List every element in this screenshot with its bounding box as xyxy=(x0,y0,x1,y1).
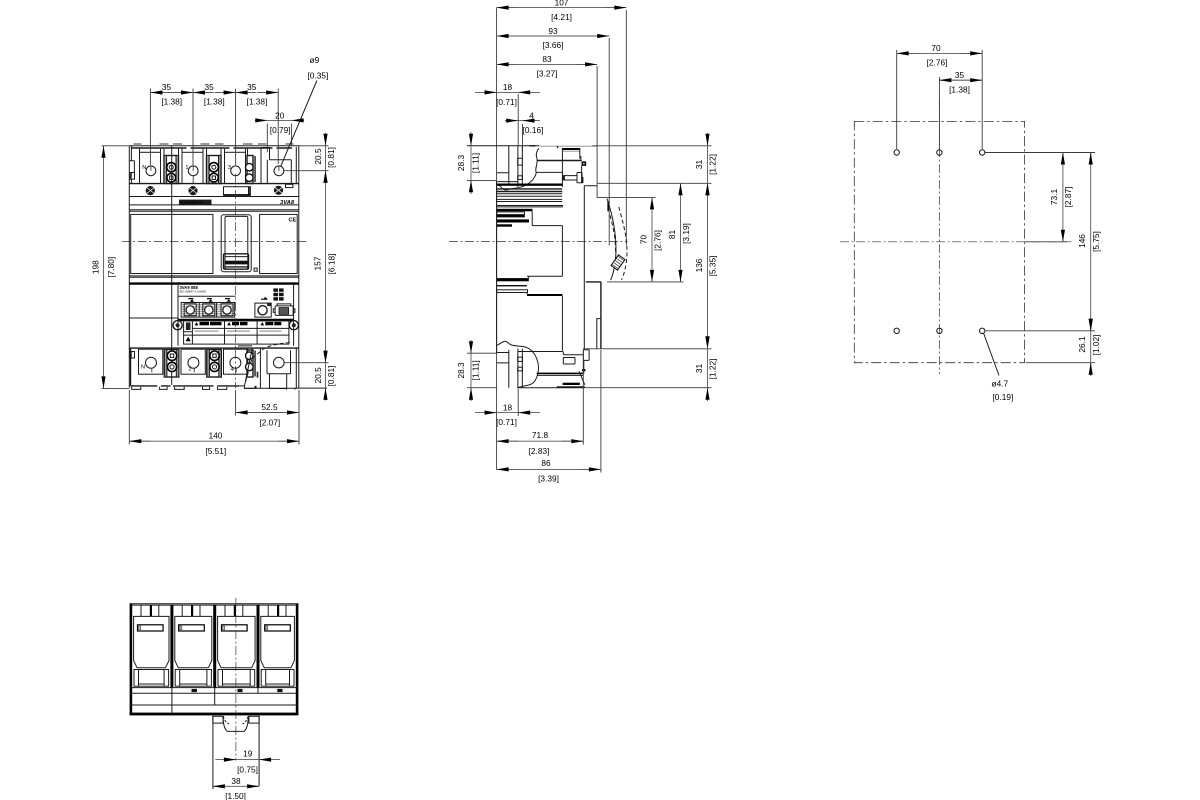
terminal shroud heavy top line xyxy=(132,147,293,149)
svg-text:1: 1 xyxy=(185,165,188,171)
dim 35 pole pitch 1 xyxy=(150,82,193,165)
bottom left edge notch xyxy=(130,352,135,359)
cover screws row xyxy=(146,186,283,196)
handle escutcheon xyxy=(221,215,251,272)
handle grip xyxy=(224,254,249,269)
svg-text:157: 157 xyxy=(313,256,323,270)
module divider 1 xyxy=(170,605,173,688)
svg-text:71.8: 71.8 xyxy=(532,430,549,440)
heavy cap xyxy=(562,148,579,150)
shroud bottom line xyxy=(129,183,298,185)
bottom terminal box 2 xyxy=(181,349,205,374)
svg-text:136: 136 xyxy=(694,258,704,272)
svg-text:18: 18 xyxy=(503,82,513,92)
bottom cage clamp 1 xyxy=(164,350,179,378)
escutcheon rear plane xyxy=(584,186,597,349)
svg-text:ø4.7: ø4.7 xyxy=(992,379,1009,389)
strip left icons xyxy=(186,322,191,341)
body left edge xyxy=(129,146,134,388)
dim 140 bottom xyxy=(129,390,299,456)
dim 18 top xyxy=(475,82,540,146)
svg-text:[1.02]: [1.02] xyxy=(1091,335,1101,356)
svg-text:70: 70 xyxy=(931,43,941,53)
heavy step line mid-bottom xyxy=(527,294,562,296)
left edge thick xyxy=(130,604,133,715)
trip test button xyxy=(254,268,257,271)
pole divider line xyxy=(171,146,173,385)
horizontal centerline xyxy=(840,241,1072,243)
interphase barrier curve xyxy=(245,343,289,383)
terminal box 3 xyxy=(225,152,246,183)
svg-text:83: 83 xyxy=(542,54,552,64)
mid step outline xyxy=(527,211,562,278)
svg-text:[0.16]: [0.16] xyxy=(523,125,544,135)
latch square xyxy=(582,161,587,165)
dim dia 9 leader xyxy=(281,55,328,166)
svg-text:3: 3 xyxy=(228,165,231,171)
svg-text:[4.21]: [4.21] xyxy=(551,12,572,22)
small stack parts right xyxy=(562,173,582,183)
dim 35 pole pitch 2 xyxy=(193,82,236,165)
svg-text:35: 35 xyxy=(162,82,172,92)
break squiggle top xyxy=(497,148,539,190)
svg-text:70: 70 xyxy=(639,235,649,245)
slanted pole4 separation xyxy=(245,348,253,386)
svg-text:146: 146 xyxy=(1077,234,1087,248)
terminal box N xyxy=(140,152,161,183)
vertical centerline xyxy=(938,100,940,374)
svg-text:81: 81 xyxy=(667,230,677,240)
dim 157 right xyxy=(313,171,337,363)
left reference vertical (front face plane) xyxy=(496,8,498,470)
svg-text:4: 4 xyxy=(231,367,234,373)
latch marks xyxy=(192,689,283,692)
svg-text:[2.76]: [2.76] xyxy=(927,58,948,68)
svg-text:[1.11]: [1.11] xyxy=(470,153,480,173)
accessory window xyxy=(224,187,251,196)
svg-text:28.3: 28.3 xyxy=(456,155,466,172)
strip warning texts xyxy=(195,322,282,326)
DIP switch block xyxy=(273,288,283,300)
left edge notch xyxy=(130,173,135,180)
svg-text:[5.35]: [5.35] xyxy=(707,256,717,277)
hole top left xyxy=(894,150,899,155)
svg-text:26.1: 26.1 xyxy=(1077,336,1087,353)
module 2 internals xyxy=(175,605,212,686)
body top edge xyxy=(129,145,299,147)
terminal box 1 xyxy=(182,152,203,183)
hole bottom middle xyxy=(937,328,942,333)
latch detail boxes top xyxy=(518,158,523,165)
dim 146 xyxy=(985,153,1101,331)
dim 20.5 bottom right xyxy=(284,351,336,400)
svg-text:[1.11]: [1.11] xyxy=(470,360,480,380)
bottom partial cage xyxy=(246,350,259,378)
svg-text:20.5: 20.5 xyxy=(313,367,323,384)
bottom view xyxy=(130,598,299,800)
svg-text:107: 107 xyxy=(555,0,569,7)
bottom module heavy bottoms with feet xyxy=(131,348,328,389)
module divider 3 xyxy=(257,605,260,688)
right edge thick xyxy=(296,604,299,715)
label strip grid xyxy=(184,321,289,344)
svg-text:4: 4 xyxy=(529,110,534,120)
band lines top cluster xyxy=(497,194,563,207)
dim 81 handle xyxy=(667,183,691,282)
svg-text:[1.38]: [1.38] xyxy=(204,97,225,107)
module 1 internals xyxy=(134,605,169,686)
svg-text:[0.71]: [0.71] xyxy=(496,417,517,427)
svg-text:[3.39]: [3.39] xyxy=(538,474,559,484)
horizontal center line xyxy=(122,241,309,243)
strip row2 faint text xyxy=(195,330,282,332)
face right window xyxy=(260,214,298,273)
svg-text:18: 18 xyxy=(503,402,513,412)
svg-text:IEC 60947-2 Ue690: IEC 60947-2 Ue690 xyxy=(180,289,207,293)
dim 83 xyxy=(497,54,597,198)
svg-text:CE: CE xyxy=(289,218,297,224)
svg-text:[0.71]: [0.71] xyxy=(496,97,517,107)
svg-text:[3.66]: [3.66] xyxy=(543,40,564,50)
terminal shroud ticks xyxy=(140,149,248,156)
dim 20 terminal width xyxy=(255,110,304,152)
dim 28.3 top left xyxy=(456,132,497,194)
break squiggle bottom xyxy=(497,341,539,388)
svg-text:[7.80]: [7.80] xyxy=(106,257,116,278)
heavy band under top terminal xyxy=(497,184,562,186)
svg-text:35: 35 xyxy=(204,82,214,92)
bottom terminal box 4 xyxy=(224,349,248,374)
svg-text:[3.19]: [3.19] xyxy=(681,223,691,244)
side centerline xyxy=(449,240,628,242)
bottom terminal block xyxy=(497,349,563,388)
vertical center line xyxy=(235,174,237,389)
handle grip cross-section xyxy=(611,255,625,270)
top mounting tabs xyxy=(134,143,294,146)
cage clamp between N and 1 xyxy=(164,156,179,184)
pole 4 terminal compartment xyxy=(261,148,291,184)
lower band lines xyxy=(130,688,299,705)
dim 93 xyxy=(497,26,610,246)
svg-text:[1.50]: [1.50] xyxy=(225,791,246,800)
dim 31 top right xyxy=(592,133,717,196)
svg-text:35: 35 xyxy=(247,82,257,92)
terminal block top left xyxy=(497,146,523,187)
bottom small stack parts xyxy=(563,350,589,364)
dim 198 left xyxy=(91,146,130,389)
svg-text:31: 31 xyxy=(694,364,704,374)
lower verticals xyxy=(172,688,258,713)
svg-text:93: 93 xyxy=(548,26,558,36)
svg-text:198: 198 xyxy=(91,260,101,274)
face bottom lines xyxy=(129,276,298,277)
rating dial block xyxy=(181,298,234,317)
staircase bars xyxy=(497,209,533,212)
front view xyxy=(91,55,337,456)
cage clamp between 1 and 3 xyxy=(207,156,222,184)
svg-text:31: 31 xyxy=(694,160,704,170)
dim 136 right xyxy=(583,183,717,348)
svg-text:3VA8: 3VA8 xyxy=(280,200,295,206)
dim 20.5 top right xyxy=(284,133,336,182)
handle solid front arc xyxy=(607,199,616,281)
svg-text:[2.76]: [2.76] xyxy=(652,230,662,251)
svg-text:N: N xyxy=(142,165,146,171)
ETU type label xyxy=(178,285,236,297)
svg-text:N: N xyxy=(141,365,145,371)
left band line xyxy=(129,317,178,319)
svg-text:[0.35]: [0.35] xyxy=(308,71,329,81)
svg-text:35: 35 xyxy=(955,70,965,80)
side view xyxy=(449,0,717,484)
handle pivot mark xyxy=(607,202,609,212)
pole4 lower tab xyxy=(286,184,293,187)
svg-text:[0.79]: [0.79] xyxy=(270,125,291,135)
bottom cage clamp 2 xyxy=(207,350,222,378)
svg-text:73.1: 73.1 xyxy=(1049,189,1059,206)
dim 35 hole spacing xyxy=(939,70,982,149)
block verticals xyxy=(562,148,581,187)
top edge with 28.3 extension xyxy=(467,145,539,147)
svg-text:[0.19]: [0.19] xyxy=(993,392,1014,402)
test dial xyxy=(255,297,271,318)
svg-text:[1.38]: [1.38] xyxy=(161,97,182,107)
bottom view centerline xyxy=(235,598,237,761)
svg-text:2: 2 xyxy=(189,367,192,373)
dim 71.8 bottom xyxy=(497,350,584,456)
svg-text:[2.87]: [2.87] xyxy=(1063,187,1073,208)
bottom cap heavy xyxy=(563,383,580,385)
svg-text:86: 86 xyxy=(541,458,551,468)
partial cage clamp right of pole 3 xyxy=(246,156,256,184)
svg-text:[1.38]: [1.38] xyxy=(949,84,970,94)
svg-text:20.5: 20.5 xyxy=(313,148,323,165)
dim 52.5 bottom xyxy=(236,390,299,445)
svg-text:52.5: 52.5 xyxy=(261,402,278,412)
svg-text:[2.07]: [2.07] xyxy=(259,418,280,428)
bottom heavy edge xyxy=(130,713,299,716)
svg-text:ø9: ø9 xyxy=(310,55,320,65)
module divider 2 xyxy=(213,605,216,688)
drilling plan xyxy=(840,43,1101,402)
panel outline dash-dot xyxy=(854,121,1024,362)
bottom shroud heavy line xyxy=(129,347,298,349)
hole bottom left xyxy=(894,328,899,333)
svg-text:[5.75]: [5.75] xyxy=(1091,231,1101,252)
SIEMENS label xyxy=(179,200,212,205)
svg-text:[1.22]: [1.22] xyxy=(707,359,717,380)
top cap right part xyxy=(539,146,597,151)
svg-text:[0.75]: [0.75] xyxy=(237,764,258,774)
label strip heavy top xyxy=(178,319,294,321)
dim 73.1 xyxy=(985,153,1095,242)
pole 4 bottom compartment xyxy=(260,348,290,388)
svg-text:SIEMENS: SIEMENS xyxy=(181,200,203,205)
DIN rail tab xyxy=(213,715,259,789)
module 3 internals xyxy=(218,605,256,686)
front lower face xyxy=(586,282,601,349)
dim 19 xyxy=(215,749,280,775)
dia 4.7 leader xyxy=(984,333,1014,402)
svg-text:[5.51]: [5.51] xyxy=(205,446,226,456)
strip screws xyxy=(173,321,298,330)
bottom block right edge xyxy=(583,360,585,373)
dim 28.3 bottom left xyxy=(456,340,497,401)
bottom terminal ticks xyxy=(152,368,236,372)
dim 18 bottom xyxy=(475,389,540,427)
svg-text:[3.27]: [3.27] xyxy=(537,69,558,79)
svg-text:[0.81]: [0.81] xyxy=(326,147,336,168)
right step lines top xyxy=(537,160,582,162)
svg-text:28.3: 28.3 xyxy=(456,362,466,379)
dim 107 depth xyxy=(497,0,627,246)
dim 35 pole pitch 3 xyxy=(236,82,279,164)
dim 31 bottom right xyxy=(585,336,717,401)
dim 86 bottom xyxy=(497,350,601,484)
heavy line above bottom cap xyxy=(537,373,584,375)
svg-text:140: 140 xyxy=(209,431,223,441)
bottom trapezoid edge xyxy=(579,371,585,385)
svg-text:[1.38]: [1.38] xyxy=(247,97,268,107)
band lines under screws xyxy=(129,197,298,212)
inner step under handle xyxy=(597,319,601,349)
body right edge xyxy=(296,146,299,388)
svg-text:20: 20 xyxy=(275,110,285,120)
dim 70 hole spacing xyxy=(897,43,983,149)
heavy band below face xyxy=(129,282,298,284)
hole top right xyxy=(980,150,985,155)
hole top middle xyxy=(937,150,942,155)
top edge dark segment xyxy=(530,145,536,147)
ETU window frame xyxy=(178,285,294,346)
svg-text:38: 38 xyxy=(231,776,241,786)
dim 26.1 xyxy=(1026,320,1101,377)
module 4 internals xyxy=(261,605,295,686)
svg-text:[6.18]: [6.18] xyxy=(327,254,337,275)
svg-text:19: 19 xyxy=(243,749,253,759)
face left window xyxy=(131,214,213,273)
dim 70 handle xyxy=(597,197,683,282)
bottom terminal box N xyxy=(139,349,163,374)
svg-text:[0.81]: [0.81] xyxy=(326,366,336,387)
outer top edges xyxy=(130,604,299,605)
dim 38 xyxy=(213,776,259,800)
dim 4 xyxy=(505,110,543,166)
svg-text:[1.22]: [1.22] xyxy=(707,154,717,175)
svg-text:[2.83]: [2.83] xyxy=(529,446,550,456)
left edge main xyxy=(496,182,498,354)
handle travel dashed arc xyxy=(619,207,627,280)
hole bottom right xyxy=(980,328,985,333)
latch detail boxes bottom xyxy=(518,357,523,361)
bottom staircase bars xyxy=(497,278,529,281)
terminal center ticks xyxy=(151,166,279,183)
plug connector xyxy=(273,304,295,316)
